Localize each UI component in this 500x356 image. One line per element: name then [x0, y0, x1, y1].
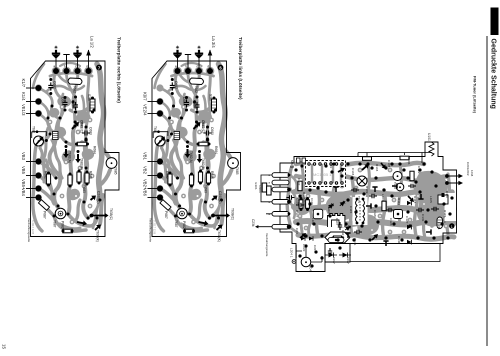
svg-text:R683: R683: [204, 185, 208, 193]
svg-text:R109: R109: [365, 186, 369, 194]
svg-text:T682: T682: [73, 86, 77, 94]
svg-text:C680: C680: [89, 127, 93, 135]
svg-text:IC101: IC101: [329, 160, 333, 169]
svg-text:T682(A): T682(A): [68, 151, 72, 163]
svg-text:K1/4: K1/4: [21, 92, 26, 101]
svg-text:S287: S287: [209, 94, 213, 102]
svg-text:K1/7: K1/7: [21, 79, 26, 88]
svg-text:C135: C135: [437, 222, 441, 230]
svg-text:C200(C): C200(C): [218, 191, 222, 203]
svg-text:C104: C104: [351, 168, 355, 176]
svg-text:VE1/3: VE1/3: [21, 104, 26, 116]
svg-text:C680: C680: [210, 127, 214, 135]
svg-text:VB2: VB2: [142, 166, 147, 175]
svg-text:P682: P682: [182, 221, 186, 229]
svg-text:C23: C23: [295, 228, 299, 234]
svg-text:C110: C110: [327, 206, 331, 213]
svg-text:T685: T685: [114, 167, 118, 175]
svg-text:Treiberplatte links (Lötseite): Treiberplatte links (Lötseite): [238, 37, 243, 100]
svg-text:T681: T681: [153, 126, 157, 134]
svg-text:R684: R684: [93, 146, 97, 154]
svg-text:C201/202: C201/202: [466, 162, 470, 176]
svg-text:Verdrahtungsseite: Verdrahtungsseite: [148, 218, 152, 243]
svg-text:T687: T687: [174, 220, 178, 228]
svg-text:C137: C137: [445, 191, 449, 199]
svg-text:MC1305 1: MC1305 1: [313, 172, 332, 177]
svg-text:L103: L103: [311, 218, 315, 225]
svg-text:C105: C105: [387, 160, 391, 168]
svg-text:R117: R117: [341, 230, 345, 237]
svg-text:C129: C129: [417, 166, 421, 174]
svg-text:R115: R115: [443, 210, 447, 217]
svg-text:R683: R683: [82, 185, 86, 193]
svg-text:VB4: VB4: [21, 188, 26, 197]
svg-text:C682: C682: [53, 81, 57, 89]
svg-text:0227: 0227: [332, 257, 336, 264]
svg-text:C684: C684: [182, 97, 186, 105]
svg-text:L104: L104: [381, 194, 385, 201]
svg-text:C131: C131: [421, 214, 425, 222]
svg-text:R103: R103: [302, 192, 306, 200]
svg-text:C120: C120: [373, 210, 377, 218]
svg-text:C115: C115: [349, 206, 353, 213]
svg-text:La 1/2: La 1/2: [90, 36, 95, 48]
svg-text:T685: T685: [235, 167, 239, 175]
svg-text:T682(C): T682(C): [201, 121, 205, 133]
svg-text:C686: C686: [71, 100, 75, 108]
svg-text:T682(C): T682(C): [80, 121, 84, 133]
svg-text:T101: T101: [357, 196, 361, 203]
svg-text:VB5: VB5: [21, 166, 26, 175]
svg-text:P687: P687: [164, 211, 168, 219]
svg-text:C222: C222: [302, 244, 306, 252]
svg-text:S 2117 12 B: S 2117 12 B: [153, 220, 157, 234]
svg-text:P687: P687: [43, 211, 47, 219]
svg-text:M8: M8: [290, 165, 294, 169]
svg-text:T638(K): T638(K): [96, 230, 100, 242]
svg-text:T638(C): T638(C): [109, 208, 113, 220]
svg-text:S 2117 12 B: S 2117 12 B: [31, 220, 35, 234]
svg-text:R676: R676: [210, 171, 214, 179]
svg-text:S287: S287: [87, 94, 91, 102]
svg-text:R112: R112: [303, 200, 307, 207]
svg-text:T682: T682: [194, 86, 198, 94]
svg-text:1: 1: [451, 225, 453, 229]
svg-text:C127: C127: [405, 216, 409, 224]
svg-text:T687: T687: [53, 220, 57, 228]
svg-text:R113: R113: [413, 196, 417, 203]
svg-text:L204 1: L204 1: [290, 248, 294, 258]
svg-text:E101: E101: [254, 183, 258, 191]
svg-text:C686: C686: [193, 100, 197, 108]
svg-text:FM-Tuner (Lötseite): FM-Tuner (Lötseite): [473, 76, 478, 114]
svg-text:0227: 0227: [346, 257, 350, 264]
svg-text:R101: R101: [258, 186, 262, 194]
svg-text:M8: M8: [290, 160, 294, 165]
svg-text:P682: P682: [61, 221, 65, 229]
svg-text:U101: U101: [427, 133, 431, 141]
svg-text:C200(C): C200(C): [97, 191, 101, 203]
svg-text:1218: 1218: [470, 170, 474, 177]
svg-text:R106: R106: [407, 157, 411, 165]
svg-text:VB6: VB6: [142, 188, 147, 197]
svg-text:R107: R107: [335, 218, 339, 226]
svg-text:R111: R111: [397, 198, 401, 205]
svg-text:Verdrahtungsseite: Verdrahtungsseite: [265, 233, 269, 257]
svg-text:C146: C146: [397, 236, 401, 244]
svg-text:C107: C107: [295, 210, 299, 218]
svg-text:La 3/4: La 3/4: [211, 36, 216, 48]
svg-text:K0/7: K0/7: [142, 92, 147, 101]
svg-text:T638(K): T638(K): [217, 230, 221, 242]
svg-text:15: 15: [2, 344, 7, 350]
svg-text:T681: T681: [32, 126, 36, 134]
svg-text:R676: R676: [89, 171, 93, 179]
svg-text:L105: L105: [429, 196, 433, 203]
svg-text:T682(B): T682(B): [201, 158, 205, 170]
svg-text:R682: R682: [165, 171, 169, 179]
svg-text:C23k: C23k: [251, 219, 255, 227]
svg-text:C682: C682: [174, 81, 178, 89]
svg-text:VB1: VB1: [142, 152, 147, 161]
svg-text:R104: R104: [375, 164, 379, 172]
svg-text:C123: C123: [389, 218, 393, 226]
svg-text:C141: C141: [353, 238, 357, 246]
svg-text:VE2/4: VE2/4: [142, 104, 147, 116]
svg-text:T204: T204: [309, 264, 313, 271]
svg-text:R682: R682: [44, 171, 48, 179]
svg-text:C684: C684: [61, 97, 65, 105]
svg-text:T638(C): T638(C): [230, 208, 234, 220]
svg-text:T102: T102: [393, 182, 397, 189]
svg-text:Verdrahtungsseite: Verdrahtungsseite: [27, 218, 31, 243]
svg-text:C21: C21: [313, 245, 317, 251]
svg-text:R684: R684: [214, 146, 218, 154]
svg-text:VB3: VB3: [21, 152, 26, 161]
svg-text:T682(A): T682(A): [189, 151, 193, 163]
svg-text:Gedruckte Schaltung: Gedruckte Schaltung: [490, 39, 497, 109]
svg-text:C102: C102: [297, 178, 301, 186]
svg-text:T682(B): T682(B): [80, 158, 84, 170]
svg-text:Treiberplatte rechts (Lötseite: Treiberplatte rechts (Lötseite): [117, 37, 122, 103]
